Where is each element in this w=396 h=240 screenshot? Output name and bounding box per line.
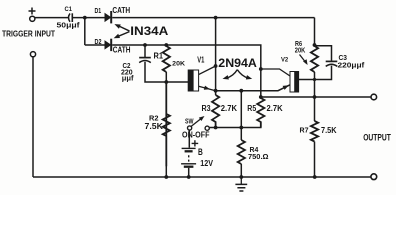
junction battery rail: [187, 175, 191, 179]
resistor R3: [212, 95, 219, 128]
wire switch to battery: [188, 130, 190, 148]
svg-text:D1: D1: [95, 8, 102, 15]
capacitor C3: [326, 61, 338, 66]
junction output line R7: [313, 95, 317, 99]
terminal trigger input positive: [30, 16, 35, 21]
junction R4 rail: [239, 175, 243, 179]
ground: [235, 177, 247, 191]
wire R6 line top corner: [314, 18, 316, 46]
svg-text:50μμf: 50μμf: [57, 20, 81, 29]
wire trigger negative down to ground rail: [32, 57, 34, 177]
wire battery to rail: [188, 168, 190, 177]
wire emitter line V1 to V2: [216, 85, 290, 91]
junction C1 output node: [83, 16, 87, 20]
switch SW: [188, 116, 210, 130]
svg-text:220μμf: 220μμf: [338, 61, 365, 70]
resistor R2: [163, 82, 170, 166]
svg-text:20K: 20K: [295, 47, 306, 54]
svg-text:2.7K: 2.7K: [221, 104, 237, 113]
battery B: [181, 148, 196, 166]
junction R1 top: [164, 43, 168, 47]
svg-text:B: B: [198, 147, 203, 157]
wire C3 top lead: [315, 46, 332, 61]
wire C3 bottom lead to base node: [315, 66, 332, 80]
wire V2 base to R6 C3 node: [299, 79, 315, 81]
junction V1 base node: [164, 80, 168, 84]
svg-text:2.7K: 2.7K: [267, 104, 283, 113]
wire R2 bottom to rail: [165, 136, 167, 177]
node TRIGGER INPUT plus sign: [29, 8, 36, 15]
label R6 pointer arrow: [300, 55, 308, 66]
wire C2 top lead: [144, 45, 146, 57]
junction top wire V1 line: [214, 16, 218, 20]
svg-text:CATH: CATH: [112, 6, 130, 15]
junction V1 collector: [214, 64, 218, 68]
svg-text:OUTPUT: OUTPUT: [363, 133, 391, 144]
junction switch wire R4 line: [239, 126, 243, 130]
junction V1 emitter node: [214, 89, 218, 93]
label IN34A pointer arrows: [114, 24, 130, 38]
svg-text:R5: R5: [247, 104, 256, 113]
svg-text:V1: V1: [197, 55, 205, 64]
wire D1 cathode along top rail to R6 corner: [112, 17, 314, 19]
label 2N94A pointer arrows: [223, 70, 253, 80]
wire output line: [261, 96, 371, 98]
transistor V1: [188, 66, 215, 91]
resistor R4: [238, 140, 245, 164]
wire R1 bottom to base junction: [165, 72, 167, 82]
svg-text:SW: SW: [185, 118, 194, 125]
diode D1: [105, 11, 111, 23]
svg-text:20K: 20K: [172, 60, 185, 67]
svg-text:C1: C1: [65, 6, 73, 13]
wire trigger terminal to C1: [35, 17, 68, 19]
junction R6 top C3: [313, 43, 317, 47]
svg-text:ON-OFF: ON-OFF: [182, 130, 210, 139]
svg-text:7.5K: 7.5K: [145, 122, 164, 131]
svg-text:750.Ω: 750.Ω: [248, 152, 269, 161]
junction output node R5 top: [259, 95, 263, 99]
wire V1 collector line top to R3: [215, 18, 217, 95]
wire R6 bottom through base node to R7: [314, 72, 316, 121]
wire C2 bottom lead to V1 base line: [145, 62, 188, 82]
wire R4 bottom to rail: [240, 164, 242, 177]
resistor R7: [311, 121, 318, 142]
svg-text:V2: V2: [281, 57, 288, 64]
terminal output top: [371, 94, 377, 100]
battery B plus sign: [192, 140, 199, 146]
capacitor C2: [139, 58, 151, 63]
junction V2 base C3 bottom: [313, 78, 316, 81]
resistor R1: [163, 46, 170, 72]
wire switch to R5 bottom: [209, 122, 260, 128]
terminal trigger input negative: [30, 52, 35, 57]
resistor R6: [311, 46, 318, 72]
terminal output bottom: [371, 174, 377, 180]
svg-text:IN34A: IN34A: [130, 26, 168, 38]
svg-text:R7: R7: [300, 126, 309, 135]
junction R3 switch wire: [214, 126, 218, 130]
junction C2 top: [143, 43, 147, 47]
diode D2: [105, 39, 111, 51]
junction D2 line V2 collector: [259, 67, 263, 71]
svg-text:R1: R1: [154, 51, 164, 60]
wire R7 bottom to rail: [314, 142, 316, 178]
svg-text:TRIGGER INPUT: TRIGGER INPUT: [2, 28, 55, 38]
wire D2 branch in: [85, 44, 105, 46]
wire R4 line from emitter node: [240, 91, 242, 140]
svg-text:μμf: μμf: [122, 74, 134, 83]
svg-text:2N94A: 2N94A: [218, 56, 257, 70]
svg-text:7.5K: 7.5K: [321, 126, 337, 135]
svg-text:CATH: CATH: [113, 46, 131, 55]
junction R2 rail: [164, 175, 168, 179]
resistor R5: [257, 97, 264, 128]
wire C1 to D1 node: [72, 17, 105, 19]
junction R7 rail: [313, 175, 317, 179]
svg-text:R3: R3: [202, 104, 212, 113]
svg-text:12V: 12V: [200, 158, 213, 168]
capacitor C1: [69, 13, 73, 22]
transistor V2: [261, 69, 299, 92]
wire ground rail bottom: [33, 176, 371, 178]
wire D2 cathode to V2 collector drop: [112, 45, 261, 97]
junction emitter wire R4 line: [239, 89, 243, 93]
wire node down to D2 branch: [84, 18, 86, 45]
